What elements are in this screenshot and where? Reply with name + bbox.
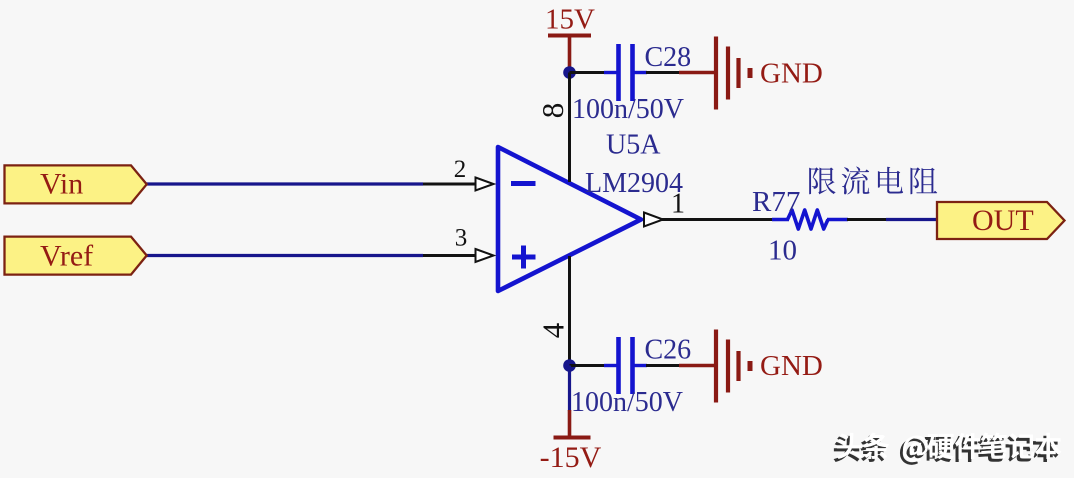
svg-text:10: 10 <box>768 235 797 267</box>
junction node at -15V rail <box>563 359 576 372</box>
wire junction to C26 <box>570 364 607 367</box>
op-amp minus input marking <box>511 181 536 186</box>
svg-text:1: 1 <box>671 189 685 220</box>
ground GND (bottom) <box>679 330 750 403</box>
pin 3 arrow <box>476 249 494 262</box>
capacitor C26 <box>604 337 647 394</box>
power -15V lead wire <box>568 410 572 438</box>
svg-text:GND: GND <box>760 58 823 90</box>
pin 1 stub wire <box>662 218 773 221</box>
svg-text:100n/50V: 100n/50V <box>572 94 684 125</box>
pin 8 wire (V+) <box>568 73 571 183</box>
label 限流电阻 (current limiting resistor) <box>809 167 937 195</box>
net wire to OUT port <box>886 218 938 221</box>
svg-text:2: 2 <box>454 156 467 183</box>
svg-text:8: 8 <box>535 103 570 119</box>
power -15V bar symbol <box>554 436 591 440</box>
resistor R77 <box>772 210 848 229</box>
svg-text:C26: C26 <box>645 335 692 366</box>
svg-text:4: 4 <box>536 322 571 338</box>
svg-text:-15V: -15V <box>540 441 602 474</box>
ground GND (top) <box>679 37 750 110</box>
wire C28 to GND <box>646 71 679 74</box>
svg-text:R77: R77 <box>752 186 800 218</box>
port OUT <box>937 202 1065 239</box>
capacitor C28 <box>604 44 647 101</box>
wire junction to C28 <box>570 71 607 74</box>
svg-text:OUT: OUT <box>972 204 1034 237</box>
svg-text:GND: GND <box>760 350 823 382</box>
svg-text:15V: 15V <box>545 4 595 36</box>
power +15V bar symbol <box>548 34 591 38</box>
svg-text:3: 3 <box>455 225 468 252</box>
net wire Vref to pin 3 <box>146 254 423 257</box>
pin 1 arrow <box>644 213 663 227</box>
svg-text:LM2904: LM2904 <box>585 168 683 199</box>
port Vref <box>5 237 147 275</box>
pin 4 wire (V-) <box>568 256 571 366</box>
power +15V lead wire <box>568 36 572 73</box>
op-amp plus input marking <box>512 246 536 269</box>
op-amp U5A triangle body <box>498 147 641 291</box>
svg-text:100n/50V: 100n/50V <box>571 387 683 418</box>
port Vin <box>5 165 147 203</box>
net wire junction to -15V <box>568 366 571 412</box>
wire R77 to OUT <box>847 218 887 221</box>
svg-text:C28: C28 <box>645 42 692 73</box>
svg-text:Vin: Vin <box>40 168 83 201</box>
wire C26 to GND <box>646 364 679 367</box>
pin 2 stub <box>422 183 478 186</box>
svg-text:Vref: Vref <box>40 240 93 273</box>
svg-text:U5A: U5A <box>606 130 661 161</box>
pin 2 arrow <box>476 178 494 191</box>
watermark 头条@硬件笔记本 <box>834 432 1062 464</box>
pin 3 stub <box>422 254 478 257</box>
junction node at +15V rail <box>563 66 576 79</box>
net wire Vin to pin 2 <box>146 182 423 185</box>
